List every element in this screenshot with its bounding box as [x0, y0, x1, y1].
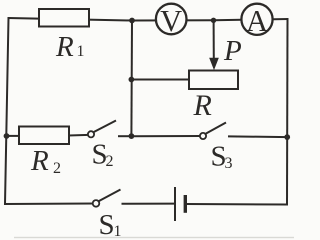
- svg-text:V: V: [160, 4, 182, 38]
- battery short plate: [184, 195, 187, 213]
- wire right rail: [286, 19, 289, 205]
- wire left rail: [5, 18, 9, 204]
- voltmeter U-V: [156, 4, 187, 38]
- svg-text:3: 3: [225, 155, 233, 172]
- svg-text:R: R: [193, 89, 212, 122]
- node junction top-right: [211, 18, 216, 23]
- wire bottom rail S1-to-battery: [123, 203, 175, 205]
- wire top rail: [9, 18, 288, 21]
- wire middle rail S2-to-dot: [119, 135, 131, 137]
- node junction middle rail: [129, 133, 135, 139]
- wire rheostat feed: [131, 79, 189, 81]
- switch S3: [200, 123, 226, 140]
- svg-text:S: S: [99, 209, 115, 240]
- svg-text:R: R: [30, 145, 49, 177]
- switch S1: [93, 190, 121, 207]
- wiper arrow of rheostat: [210, 20, 219, 69]
- node junction rheostat feed: [129, 77, 135, 83]
- resistor R1: [39, 9, 89, 27]
- svg-text:R: R: [55, 31, 74, 63]
- svg-text:2: 2: [106, 153, 114, 170]
- svg-text:2: 2: [53, 160, 61, 177]
- wire middle rail dot-to-S3: [131, 135, 200, 137]
- rheostat R: [189, 71, 238, 90]
- wire bottom rail battery-to-right: [186, 203, 287, 206]
- wire bottom rail left segment: [5, 203, 93, 206]
- svg-text:1: 1: [77, 43, 85, 60]
- wire middle vertical branch: [130, 21, 133, 137]
- switch S2: [88, 121, 116, 138]
- wire middle rail R2-to-S2: [69, 134, 88, 137]
- wire middle rail left segment: [7, 135, 20, 137]
- svg-text:A: A: [246, 4, 268, 38]
- node junction left rail: [4, 133, 10, 139]
- ammeter U-A: [241, 4, 272, 38]
- svg-text:P: P: [223, 35, 242, 67]
- node junction top-left: [129, 18, 135, 24]
- node junction right rail: [284, 134, 290, 140]
- resistor R2: [19, 127, 69, 145]
- battery long plate: [174, 187, 176, 221]
- wire middle rail S3-to-right: [229, 135, 287, 138]
- scan artifact bottom streak: [14, 237, 294, 238]
